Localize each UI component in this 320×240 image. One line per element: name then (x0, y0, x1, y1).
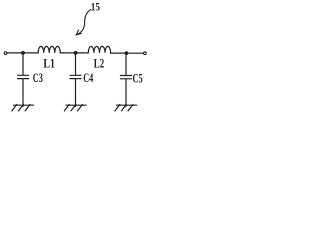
svg-text:15: 15 (91, 2, 100, 14)
svg-text:C5: C5 (133, 71, 143, 85)
svg-text:L2: L2 (94, 56, 104, 71)
svg-text:C4: C4 (83, 71, 93, 85)
svg-text:C3: C3 (33, 71, 43, 85)
svg-text:L1: L1 (43, 56, 55, 71)
